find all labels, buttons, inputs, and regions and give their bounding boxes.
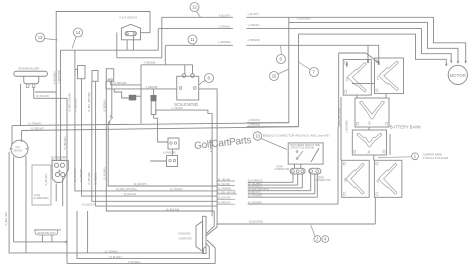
- oval connectors: [290, 168, 305, 174]
- component body: [357, 122, 359, 125]
- wire: [35, 230, 58, 235]
- balloon 12: [190, 3, 201, 18]
- terminal: [193, 87, 196, 90]
- svg-text:4_WHT(36A): 4_WHT(36A): [297, 17, 311, 20]
- wire vertical down right: [247, 34, 299, 127]
- wire: [62, 177, 64, 206]
- svg-text:F & R SWITCH: F & R SWITCH: [120, 16, 138, 20]
- svg-text:18_YEL(4V): 18_YEL(4V): [104, 167, 106, 180]
- svg-text:CONNECTOR: CONNECTOR: [275, 169, 290, 171]
- wire 4_YEL mid: [156, 110, 212, 114]
- wire: [368, 127, 370, 130]
- wire to 1_ORA corner: [133, 29, 158, 51]
- component body: [345, 91, 347, 94]
- watermark GolfCartParts.com: [194, 135, 252, 152]
- component body: [343, 193, 345, 196]
- terminal: [110, 116, 112, 118]
- long bottom wire 16_BLK(4W2): [374, 197, 376, 224]
- svg-text:16_BLK(4W): 16_BLK(4W): [166, 209, 179, 211]
- svg-text:SWITCH: SWITCH: [13, 150, 22, 152]
- wire: [111, 84, 141, 86]
- wire: [339, 52, 366, 54]
- svg-text:BATTERY BANK: BATTERY BANK: [390, 125, 422, 130]
- arrow: [58, 169, 61, 171]
- battery interconnects: [367, 45, 369, 59]
- wire: [96, 81, 217, 206]
- wire F&R to top rail: [56, 12, 150, 161]
- arrow: [457, 61, 460, 64]
- svg-text:(CIRCUIT ILE DEVICE): (CIRCUIT ILE DEVICE): [290, 148, 314, 150]
- svg-text:18_RED(4L): 18_RED(4L): [105, 99, 107, 112]
- high speed switch box: [288, 143, 323, 164]
- key switch: [11, 140, 28, 157]
- battery 3: [355, 98, 389, 127]
- svg-text:18_BLK(4M): 18_BLK(4M): [89, 172, 91, 185]
- wire: [153, 115, 155, 119]
- balloon 15: [270, 69, 289, 81]
- wire: [311, 148, 319, 162]
- terminal: [61, 173, 65, 177]
- wire: [349, 64, 365, 91]
- svg-text:16_RED(WT): 16_RED(WT): [31, 129, 45, 131]
- balloon 1 jumper note: [378, 153, 418, 160]
- svg-text:(12 BREAKER): (12 BREAKER): [33, 197, 49, 200]
- obc fan wires: [206, 211, 214, 234]
- svg-text:1_ORA(6X): 1_ORA(6X): [248, 24, 260, 27]
- svg-text:3: 3: [368, 121, 371, 126]
- svg-text:REVERSE BUZZER: REVERSE BUZZER: [19, 69, 40, 71]
- terminal: [191, 74, 195, 78]
- wire: [75, 50, 78, 69]
- svg-text:16_YEL(4KS): 16_YEL(4KS): [248, 183, 262, 185]
- wire: [55, 184, 57, 202]
- svg-text:16_BLK(4W): 16_BLK(4W): [218, 198, 231, 200]
- terminal: [60, 163, 64, 167]
- component body: [32, 84, 35, 88]
- balloon 8: [200, 74, 214, 86]
- svg-text:16_BLK(4W2): 16_BLK(4W2): [249, 222, 264, 224]
- terminal: [173, 159, 175, 161]
- wire 4_WHT to motor: [289, 23, 458, 63]
- svg-text:18_WHT_BLK(4P): 18_WHT_BLK(4P): [69, 93, 71, 112]
- svg-text:16_BLU(4CT): 16_BLU(4CT): [248, 186, 262, 188]
- wire: [358, 135, 380, 146]
- svg-text:4_RED(6B): 4_RED(6B): [144, 63, 156, 65]
- motor M: [448, 65, 467, 84]
- balloon 11: [188, 35, 197, 46]
- svg-text:18_WHT(4S): 18_WHT(4S): [75, 168, 77, 182]
- on-board computer: [203, 216, 206, 253]
- solenoid box: [177, 76, 199, 100]
- svg-text:14_YEL(4K): 14_YEL(4K): [170, 189, 183, 191]
- wire: [380, 165, 395, 193]
- wire: [106, 81, 214, 211]
- arrow: [445, 64, 448, 67]
- terminal: [316, 170, 319, 173]
- svg-text:RED(6L) CONNECTOR AND W15, W05: RED(6L) CONNECTOR AND W15, W05, and W17: [263, 134, 331, 138]
- wire: [26, 148, 29, 150]
- svg-text:16_BLU(CT): 16_BLU(CT): [248, 192, 261, 194]
- wire: [347, 165, 362, 193]
- fuse block dashed box: [32, 165, 51, 205]
- svg-text:4_BLK(36C): 4_BLK(36C): [55, 71, 57, 84]
- component body: [151, 101, 156, 115]
- wire: [52, 161, 68, 183]
- svg-text:16_PUR(4CS): 16_PUR(4CS): [248, 181, 263, 183]
- wire: [153, 89, 155, 95]
- terminal: [296, 158, 298, 160]
- component body: [376, 60, 378, 63]
- wire: [14, 241, 66, 243]
- wire: [12, 123, 289, 126]
- svg-text:4_BLU(6Y): 4_BLU(6Y): [248, 14, 260, 16]
- fuse component 2: [92, 71, 98, 82]
- wire: [361, 103, 383, 118]
- svg-text:1_BLK_WHT(36B): 1_BLK_WHT(36B): [339, 108, 341, 127]
- battery 4: [352, 130, 386, 155]
- wire: [105, 81, 107, 89]
- wire oval common: [61, 49, 134, 51]
- svg-text:1_ORA(6X): 1_ORA(6X): [248, 119, 260, 122]
- fuse component 3: [106, 69, 114, 82]
- battery terminal ticks: [367, 60, 369, 63]
- wire: [24, 76, 39, 84]
- svg-text:16_ORG(6AT): 16_ORG(6AT): [248, 195, 263, 198]
- battery 2: [343, 60, 371, 96]
- wire: [92, 81, 217, 201]
- svg-text:16_ORG(6AT): 16_ORG(6AT): [248, 202, 263, 205]
- terminal: [179, 87, 182, 90]
- component body: [14, 71, 48, 76]
- terminal: [296, 151, 298, 153]
- F & R switch rotor oval: [125, 31, 136, 35]
- svg-text:13_ORA(6G): 13_ORA(6G): [105, 251, 119, 254]
- svg-text:1_BRN(6W): 1_BRN(6W): [248, 125, 261, 127]
- buzzer wires: [20, 84, 22, 126]
- wire: [10, 148, 13, 150]
- wire: [51, 235, 53, 242]
- wire: [366, 53, 379, 63]
- svg-text:13: 13: [255, 134, 260, 139]
- svg-text:5: 5: [344, 178, 347, 183]
- svg-text:KEY: KEY: [16, 147, 21, 149]
- balloon 6: [277, 46, 286, 64]
- wire: [248, 127, 338, 204]
- wire: [203, 246, 206, 253]
- solenoid side wires: [106, 88, 177, 90]
- terminal: [133, 33, 135, 35]
- svg-text:1_BLK(36B): 1_BLK(36B): [346, 120, 348, 133]
- wire: [77, 211, 209, 258]
- svg-text:COMPUTER: COMPUTER: [179, 239, 192, 241]
- svg-text:11: 11: [190, 37, 195, 42]
- wire pentagon bottom left: [126, 40, 128, 50]
- wire: [108, 124, 217, 186]
- component body: [376, 89, 378, 92]
- svg-text:18_RED(4L): 18_RED(4L): [95, 172, 97, 185]
- component body: [129, 95, 137, 101]
- wire: [211, 114, 213, 217]
- svg-text:CONNECTOR: CONNECTOR: [316, 180, 331, 182]
- wire 1_BRN top: [165, 44, 233, 46]
- terminal: [296, 170, 299, 173]
- wire to 4_BLU corner: [117, 17, 162, 58]
- wire: [34, 229, 61, 231]
- svg-text:FUSE: FUSE: [34, 195, 41, 197]
- balloon 14: [72, 28, 83, 49]
- wire: [373, 155, 375, 160]
- svg-text:13: 13: [38, 35, 43, 40]
- wire: [25, 156, 27, 253]
- svg-text:16_RED(4V): 16_RED(4V): [218, 203, 231, 205]
- middle small relay boxes: [168, 138, 179, 149]
- component body: [26, 84, 29, 88]
- motor arrows: [464, 61, 467, 64]
- wire: [206, 224, 375, 236]
- svg-text:18_WHT(4S): 18_WHT(4S): [76, 98, 78, 112]
- terminal: [111, 79, 113, 81]
- svg-text:12: 12: [192, 5, 197, 10]
- wire: [338, 53, 340, 127]
- wire: [13, 157, 15, 242]
- balloons 2 and 4: [311, 225, 321, 242]
- svg-text:1_BRN(6W): 1_BRN(6W): [218, 42, 231, 44]
- wire: [172, 149, 174, 156]
- terminal: [310, 170, 313, 173]
- component body: [354, 150, 356, 153]
- lower long wires: [87, 211, 89, 253]
- svg-text:ON-BOARD: ON-BOARD: [178, 233, 191, 236]
- svg-text:18_GRN(4D): 18_GRN(4D): [81, 168, 83, 182]
- component body: [386, 122, 388, 125]
- svg-text:16_GRN(4D): 16_GRN(4D): [218, 189, 232, 191]
- wire pentagon bottom right: [132, 36, 134, 51]
- component body: [376, 193, 378, 196]
- battery 5: [342, 160, 370, 197]
- svg-text:13_ORA(WT): 13_ORA(WT): [28, 123, 42, 126]
- wire 13_ORA mid long: [11, 126, 13, 144]
- svg-text:16_BLU(4F): 16_BLU(4F): [124, 194, 137, 196]
- wire: [41, 235, 43, 242]
- svg-text:16_GRN_WHT(4TS): 16_GRN_WHT(4TS): [248, 189, 269, 191]
- wire: [192, 65, 194, 74]
- svg-text:14: 14: [76, 30, 81, 35]
- wire: [135, 95, 141, 97]
- wire: [380, 63, 397, 90]
- svg-text:16_BLU(4F): 16_BLU(4F): [46, 173, 48, 186]
- svg-text:15_BLU(6F): 15_BLU(6F): [109, 257, 122, 259]
- wire: [9, 152, 203, 253]
- svg-text:18_BRN(4R): 18_BRN(4R): [113, 83, 126, 85]
- svg-text:6: 6: [377, 179, 380, 184]
- component body: [309, 168, 321, 174]
- fuse blob B with holder: [151, 95, 157, 101]
- svg-text:4_PNK(36P): 4_PNK(36P): [163, 153, 176, 155]
- svg-text:16_YEL(4K): 16_YEL(4K): [218, 179, 231, 181]
- wire: [385, 94, 387, 98]
- svg-text:1_WHT(36W): 1_WHT(36W): [59, 70, 61, 84]
- wire 1_BRN drop to solenoid rail: [141, 46, 165, 65]
- wire: [60, 50, 62, 161]
- wire: [347, 165, 362, 193]
- component body: [383, 150, 385, 153]
- svg-text:4: 4: [368, 150, 371, 155]
- svg-text:18_ORG(4C): 18_ORG(4C): [65, 136, 67, 150]
- balloon 7: [299, 62, 319, 77]
- svg-text:18_ORG(4P): 18_ORG(4P): [36, 96, 50, 98]
- wire: [352, 83, 375, 85]
- terminal: [108, 122, 110, 124]
- fuse blob A: [114, 89, 128, 98]
- balloon 13: [36, 33, 58, 42]
- balloon 13 note: [253, 132, 287, 150]
- arrow: [65, 241, 68, 244]
- wire: [199, 89, 217, 224]
- wire: [184, 65, 186, 74]
- terminal: [292, 170, 295, 173]
- svg-text:4_GRN_WHT(4E): 4_GRN_WHT(4E): [218, 192, 237, 194]
- wire: [361, 103, 383, 118]
- svg-text:13_BLK(WT): 13_BLK(WT): [134, 184, 148, 186]
- oval pin wires: [294, 164, 296, 168]
- descending bundle wires: [75, 69, 217, 190]
- svg-text:1_BRN(6W): 1_BRN(6W): [248, 40, 261, 42]
- micro switch on bundle: [111, 81, 113, 115]
- component body: [345, 62, 347, 65]
- wire to motor 4: [299, 34, 447, 65]
- terminal: [126, 33, 128, 35]
- svg-text:4_RED(6B): 4_RED(6B): [146, 87, 158, 89]
- wire: [340, 97, 342, 160]
- wire 4_BLU long top: [162, 16, 233, 18]
- svg-text:18_BLK_WHT(4M): 18_BLK_WHT(4M): [89, 92, 91, 112]
- wire: [67, 240, 215, 263]
- component body: [343, 162, 345, 165]
- wire pentagon left stub: [116, 33, 118, 58]
- terminal: [174, 142, 176, 144]
- F & R switch body: [121, 24, 140, 40]
- wire: [358, 135, 380, 146]
- battery 6: [374, 160, 402, 197]
- wire: [150, 160, 167, 162]
- svg-text:15: 15: [272, 74, 277, 79]
- component body: [376, 162, 378, 165]
- wire: [298, 151, 304, 158]
- svg-text:MOTOR: MOTOR: [450, 73, 466, 78]
- svg-text:4_WHT(36A): 4_WHT(36A): [210, 138, 213, 152]
- svg-text:13_GRN_WHT(41G): 13_GRN_WHT(41G): [116, 189, 138, 191]
- wire: [380, 165, 395, 193]
- wire 4_RED drop: [140, 65, 142, 124]
- component body: [346, 63, 347, 67]
- svg-text:4_YEL(6P): 4_YEL(6P): [172, 108, 183, 110]
- terminal: [169, 159, 171, 161]
- component body: [167, 156, 178, 167]
- terminal: [55, 163, 59, 167]
- svg-text:12_BLK_WHT: 12_BLK_WHT: [6, 211, 8, 226]
- wire: [389, 134, 391, 155]
- svg-text:TYPICAL 5 PLACES: TYPICAL 5 PLACES: [423, 156, 449, 160]
- wire: [349, 64, 365, 91]
- wire: [22, 127, 299, 131]
- wire: [108, 117, 113, 124]
- fuse component 1: [78, 66, 86, 79]
- wire: [110, 81, 112, 85]
- wire: [380, 63, 397, 90]
- terminal: [170, 142, 172, 144]
- label stubs column A: [217, 180, 236, 182]
- terminal: [182, 74, 186, 78]
- svg-text:4_BLK(6E+): 4_BLK(6E+): [128, 262, 141, 264]
- wire 16_RED mid long: [21, 131, 23, 143]
- wire: [82, 79, 218, 196]
- arrow: [450, 61, 453, 64]
- svg-text:13_BLK(WT): 13_BLK(WT): [82, 204, 96, 206]
- svg-text:SOLENOID: SOLENOID: [174, 102, 199, 107]
- wire: [34, 88, 67, 264]
- battery 1: [375, 58, 404, 94]
- wire vertical 4_WHT down: [247, 17, 289, 122]
- wire: [356, 95, 358, 98]
- svg-text:4_BLU(6Y): 4_BLU(6Y): [219, 15, 231, 17]
- wire: [35, 91, 56, 93]
- terminal: [108, 79, 110, 81]
- terminal: [56, 173, 60, 177]
- wire 1_ORA long: [158, 28, 233, 30]
- svg-text:2: 2: [346, 77, 349, 82]
- svg-text:1_ORA(6X): 1_ORA(6X): [218, 26, 230, 29]
- svg-text:16_BLU(4F): 16_BLU(4F): [218, 184, 231, 186]
- component body: [378, 62, 380, 65]
- svg-text:1: 1: [377, 76, 380, 81]
- svg-text:RESISTOR ASSY: RESISTOR ASSY: [38, 232, 57, 235]
- wire solenoid coil feeds: [165, 64, 192, 66]
